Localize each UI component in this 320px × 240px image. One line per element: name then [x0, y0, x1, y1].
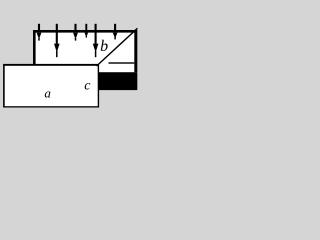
svg-text:a: a — [44, 86, 51, 101]
svg-text:b: b — [100, 38, 108, 55]
svg-text:c: c — [84, 78, 91, 93]
